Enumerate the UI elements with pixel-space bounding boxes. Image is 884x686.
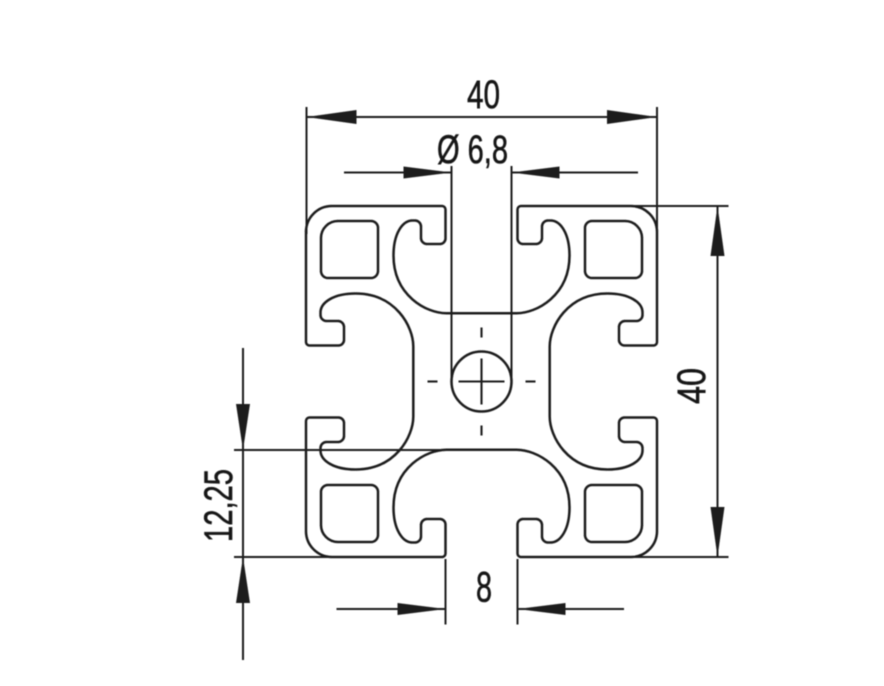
svg-text:12,25: 12,25: [197, 469, 241, 542]
svg-text:40: 40: [467, 73, 500, 117]
svg-text:40: 40: [670, 368, 714, 404]
svg-text:Ø 6,8: Ø 6,8: [437, 128, 508, 172]
svg-text:8: 8: [476, 564, 492, 612]
